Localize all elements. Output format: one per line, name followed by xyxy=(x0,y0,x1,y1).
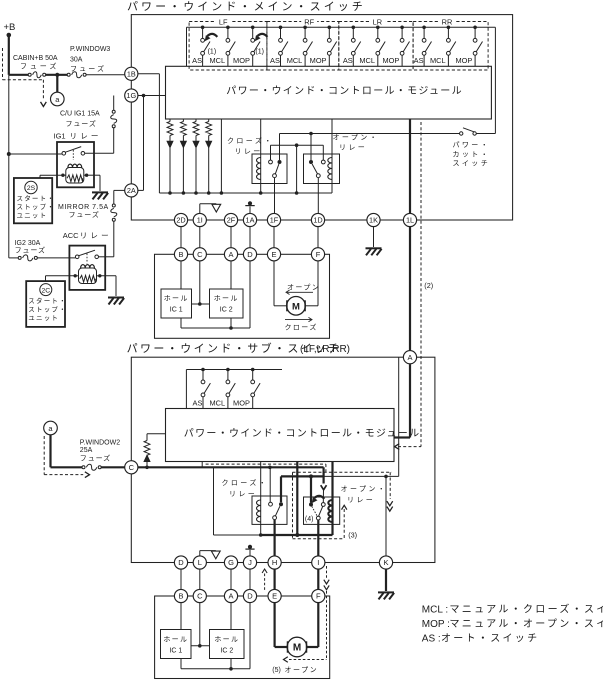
wire relay NO bus xyxy=(271,145,324,160)
relay open (sub) contacts xyxy=(309,503,325,520)
wire IG1 contact to C/U fuse xyxy=(85,152,114,154)
labels AS MCL MOP LF xyxy=(192,56,250,65)
wire 1L to A (bold) xyxy=(409,227,411,351)
svg-text:ストップ・: ストップ・ xyxy=(17,203,56,211)
svg-text:フューズ: フューズ xyxy=(66,119,97,128)
labels AS MCL MOP LR xyxy=(343,56,400,65)
junction close relay NO tap xyxy=(268,466,272,470)
switch RF AS xyxy=(279,26,288,67)
wire C feed to open relay contact xyxy=(321,476,327,502)
label IG1 relay xyxy=(54,131,102,140)
svg-text:RF: RF xyxy=(304,17,314,26)
svg-text:L: L xyxy=(198,558,202,567)
svg-text:AS: AS xyxy=(270,56,280,65)
label C/U IG1 15A fuse xyxy=(60,111,100,129)
svg-text:LR: LR xyxy=(373,17,382,26)
wire +B vertical (bold) xyxy=(8,35,10,75)
wire open common drop (bold) xyxy=(310,476,312,502)
svg-text:C/U IG1 15A: C/U IG1 15A xyxy=(60,111,100,118)
wire +B to CABIN fuse (bold) xyxy=(9,74,28,76)
svg-text:30A: 30A xyxy=(70,56,83,63)
pin L (sub bottom) xyxy=(193,556,206,569)
svg-text:1G: 1G xyxy=(126,91,136,100)
switch group RR dashed box xyxy=(413,22,488,71)
svg-text:1L: 1L xyxy=(406,216,414,225)
svg-text:(1): (1) xyxy=(208,49,217,56)
switch LF MOP xyxy=(251,26,260,67)
wire C to hall ICs (unit2) xyxy=(191,603,210,648)
svg-text:クローズ: クローズ xyxy=(285,322,318,331)
chip hall IC2 (unit2) xyxy=(210,630,245,659)
pin K (sub bottom) xyxy=(379,556,392,569)
svg-text:C: C xyxy=(197,592,203,601)
wire ACC contact to MIRROR fuse line xyxy=(99,256,114,258)
label sub control module xyxy=(184,427,421,439)
switch RR MOP xyxy=(473,26,482,67)
wire open relay output to 1D xyxy=(317,178,319,214)
switch LR AS xyxy=(351,26,360,67)
pin B (motor unit 1) xyxy=(174,248,187,261)
svg-text:リレー: リレー xyxy=(70,131,102,140)
wire sub coil bus xyxy=(214,533,333,537)
svg-text:スタート・: スタート・ xyxy=(28,296,67,305)
dashed flow path I to motor xyxy=(284,566,330,662)
ground 1K xyxy=(366,248,382,255)
relay open (main) coil xyxy=(328,119,332,193)
svg-text:AS: AS xyxy=(192,56,202,65)
label (3) xyxy=(348,531,357,540)
svg-text:MOP :: MOP : xyxy=(422,619,450,630)
label (5) open flow xyxy=(272,666,318,674)
svg-text:H: H xyxy=(272,558,277,567)
relay ACC coil with resistor xyxy=(74,265,102,284)
svg-text:RR: RR xyxy=(442,17,453,26)
wire CABIN fuse to junction (bold) xyxy=(46,74,67,76)
svg-text:MOP: MOP xyxy=(455,56,472,65)
wire D to B (unit2) xyxy=(180,569,182,589)
svg-text:AS: AS xyxy=(343,56,353,65)
pin D (motor unit 1) xyxy=(243,248,256,261)
wire +B to IG1 relay contact xyxy=(9,153,62,155)
pin 1D xyxy=(311,213,324,226)
label start-stop unit lower xyxy=(28,296,67,322)
labels AS MCL MOP sub xyxy=(193,399,250,408)
fuse CABIN+B 50A xyxy=(13,55,59,78)
svg-text:B: B xyxy=(178,592,183,601)
svg-text:(5): (5) xyxy=(272,667,281,674)
labels AS MCL MOP RF xyxy=(270,56,327,65)
wire L to C (unit2) xyxy=(199,569,201,589)
ground IG1 relay xyxy=(92,192,108,199)
switch LR MCL xyxy=(376,26,385,67)
junction open relay common xyxy=(309,132,313,136)
switch sub MOP xyxy=(251,368,260,409)
svg-text:パワー・: パワー・ xyxy=(453,141,491,149)
pin D (motor unit 2) xyxy=(243,589,256,602)
wire 1G into module xyxy=(138,95,166,97)
switch group LR dashed box xyxy=(339,22,413,71)
switch group RF dashed box xyxy=(267,22,339,71)
wire B to hall IC1 (unit2) xyxy=(180,603,182,630)
pin 2D xyxy=(174,213,187,226)
wire 1K to ground xyxy=(373,227,375,247)
wire 1I to C xyxy=(199,227,201,248)
svg-text:AS: AS xyxy=(193,399,203,408)
label MIRROR 7.5A fuse xyxy=(58,204,109,219)
dashed path from a xyxy=(44,436,89,478)
junction NO bus to coil bus xyxy=(295,143,299,194)
junction IG1 feed xyxy=(7,152,11,156)
wire junction down to (a) (bold) xyxy=(56,75,58,92)
relay IG1 box xyxy=(57,142,94,187)
label close relay (main) xyxy=(227,136,274,156)
fuse IG2 30A symbol xyxy=(9,255,76,261)
motor M (unit1) xyxy=(287,297,306,316)
wire close relay (sub) output to H (bold) xyxy=(274,520,276,556)
svg-text:2A: 2A xyxy=(127,186,136,195)
svg-text:ホール: ホール xyxy=(214,295,239,303)
svg-text:(1): (1) xyxy=(255,49,264,56)
junction C resistor tap xyxy=(145,466,149,470)
svg-text:(3): (3) xyxy=(348,531,357,540)
wire module return (bold) xyxy=(296,462,298,536)
label open relay (main) xyxy=(333,134,380,152)
wire coil bus to C line xyxy=(213,467,215,535)
svg-text:E: E xyxy=(272,592,277,601)
unit motor 1 box xyxy=(155,254,330,338)
wire 2A to MIRROR fuse xyxy=(114,190,125,204)
ground K xyxy=(378,592,394,599)
svg-text:IC 2: IC 2 xyxy=(220,307,233,314)
svg-text:カット・: カット・ xyxy=(453,150,491,158)
switch RF MCL xyxy=(303,26,312,67)
svg-text:D: D xyxy=(247,250,253,259)
switch power cut xyxy=(460,27,496,135)
wire +B down to IG2 fuse xyxy=(8,75,10,258)
wire A to hall IC2 xyxy=(230,261,232,289)
relay open (sub) coil (bold) xyxy=(328,462,332,536)
symbol antenna node at 1A xyxy=(245,201,254,213)
svg-text:MCL: MCL xyxy=(430,56,446,65)
wire IG1 coil to 2S unit xyxy=(40,175,63,178)
wire F to motor (unit1) xyxy=(306,261,319,306)
wire C to hall ICs xyxy=(192,261,210,306)
svg-text:F: F xyxy=(316,592,321,601)
dashed path under module xyxy=(206,464,326,472)
wire branch 5 plain xyxy=(220,119,224,195)
svg-text:MOP: MOP xyxy=(233,399,250,408)
wire C feed line (bold) xyxy=(138,467,324,476)
svg-text:MCL: MCL xyxy=(209,399,225,408)
pin C (sub) xyxy=(125,461,138,474)
svg-text:M: M xyxy=(292,301,300,312)
svg-text:F: F xyxy=(316,250,321,259)
label main control module xyxy=(226,85,463,97)
svg-text:1B: 1B xyxy=(127,69,136,78)
svg-text:リレー: リレー xyxy=(347,497,375,504)
motor M (unit2) xyxy=(287,637,307,657)
unit 2C start-stop box xyxy=(26,281,65,327)
switch RR MCL xyxy=(447,26,456,67)
fuse MIRROR 7.5A symbol xyxy=(111,204,117,257)
svg-text:MOP: MOP xyxy=(382,56,399,65)
label power window main switch title xyxy=(127,0,366,13)
fuse P.WINDOW2 25A xyxy=(80,440,120,471)
pin 1I xyxy=(193,213,206,226)
wire a to P.WINDOW2 fuse (bold) xyxy=(51,435,83,467)
svg-text:I: I xyxy=(317,558,319,567)
pin E (motor unit 1) xyxy=(267,248,280,261)
svg-text:A: A xyxy=(228,250,233,259)
svg-text:MCL: MCL xyxy=(209,56,225,65)
wire ACC coil to 2C unit xyxy=(46,276,76,281)
legend MOP xyxy=(422,618,603,630)
relay close (main) contacts xyxy=(269,160,282,178)
svg-text:オープン: オープン xyxy=(285,666,319,674)
resistor-diode branch x=208.7 xyxy=(206,119,212,195)
svg-text:(2): (2) xyxy=(424,281,433,290)
node +B battery terminal xyxy=(4,22,16,37)
wire close relay output to 1F xyxy=(274,178,276,214)
arrow (1) on LF AS switch xyxy=(205,34,218,56)
wire relay common bus (bold) xyxy=(281,475,324,477)
node a (upper off-page connector) xyxy=(51,92,65,106)
module sub control box xyxy=(166,409,395,462)
svg-text:2S: 2S xyxy=(27,185,36,192)
svg-text:マニュアル・クローズ・スイッチ: マニュアル・クローズ・スイッチ xyxy=(450,603,603,616)
pin A (sub) xyxy=(403,351,416,364)
svg-text:B: B xyxy=(178,250,183,259)
svg-text:1K: 1K xyxy=(369,216,378,225)
pin D (sub bottom) xyxy=(174,556,187,569)
pin C (motor unit 2) xyxy=(193,589,206,602)
svg-text:オート・スイッチ: オート・スイッチ xyxy=(441,632,539,644)
switch RF MOP xyxy=(327,26,336,67)
arrow (4) on open relay xyxy=(305,496,324,523)
wire P.WINDOW3 fuse to 1B xyxy=(86,74,125,76)
svg-text:フューズ: フューズ xyxy=(15,245,46,254)
wire A to module (bold) xyxy=(394,364,410,437)
svg-text:CABIN+B 50A: CABIN+B 50A xyxy=(13,55,58,62)
wire B to hall IC1 xyxy=(180,261,182,289)
svg-text:フューズ: フューズ xyxy=(20,62,59,71)
svg-text:ホール: ホール xyxy=(214,636,239,644)
svg-text:25A: 25A xyxy=(80,447,93,454)
svg-text:1D: 1D xyxy=(313,216,322,225)
dashed path (2) xyxy=(395,122,421,450)
svg-text:A: A xyxy=(407,353,412,362)
wire D to IC bus xyxy=(181,261,250,330)
pin 1A xyxy=(243,213,256,226)
switch group LF dashed box xyxy=(189,22,267,71)
relay ACC contacts and blade xyxy=(75,250,98,263)
svg-text:ストップ・: ストップ・ xyxy=(28,306,67,314)
wire main switch bus xyxy=(187,27,496,66)
wire main coil bus xyxy=(170,192,332,194)
svg-text:A: A xyxy=(228,592,233,601)
svg-text:(LF,LR,RR): (LF,LR,RR) xyxy=(300,344,350,355)
resistor-diode branch x=196 xyxy=(193,119,199,195)
svg-text:1A: 1A xyxy=(246,216,255,225)
label open direction (unit1) xyxy=(286,283,320,294)
relay open (sub) box xyxy=(304,497,340,524)
svg-text:IG1: IG1 xyxy=(54,131,66,140)
resistor C feed xyxy=(144,434,165,468)
svg-text:パワー・ウインド・コントロール・モジュール: パワー・ウインド・コントロール・モジュール xyxy=(184,427,421,439)
label power window sub switch title xyxy=(127,341,350,355)
relay open (main) box xyxy=(304,154,340,184)
relay IG1 coil with resistor xyxy=(61,164,88,183)
pin J (sub bottom) xyxy=(243,556,256,569)
wire D to IC bus (unit2) xyxy=(181,603,250,671)
svg-text:D: D xyxy=(178,558,184,567)
wire E to motor (unit1) xyxy=(274,261,287,306)
svg-text:マニュアル・オープン・スイッチ: マニュアル・オープン・スイッチ xyxy=(450,618,603,630)
svg-text:ホール: ホール xyxy=(164,295,189,303)
svg-text:K: K xyxy=(383,558,388,567)
switch LF AS xyxy=(201,26,210,67)
svg-text:リレー: リレー xyxy=(339,145,367,152)
svg-text:2C: 2C xyxy=(41,287,50,294)
wire H to E (bold) xyxy=(274,569,276,589)
svg-text:2F: 2F xyxy=(227,216,236,225)
svg-text:G: G xyxy=(228,558,234,567)
wire power-cut line to relays xyxy=(280,134,460,161)
pin 2F xyxy=(224,213,237,226)
svg-text:パワー・ウインド・コントロール・モジュール: パワー・ウインド・コントロール・モジュール xyxy=(226,85,463,97)
symbol antenna node at J xyxy=(245,545,254,556)
relay close (sub) coil xyxy=(257,462,261,536)
relay IG1 contacts and blade xyxy=(62,147,85,160)
switch LF MCL xyxy=(226,26,235,67)
unit motor 2 box xyxy=(155,596,330,679)
label close direction (unit1) xyxy=(285,317,318,331)
label (2) xyxy=(424,281,433,290)
wire K branch down xyxy=(385,476,387,556)
pin 2A xyxy=(125,184,138,197)
switch LR MOP xyxy=(400,26,409,67)
svg-text:M: M xyxy=(293,643,301,654)
dashed path to K with arrows xyxy=(387,472,393,511)
relay close (main) coil xyxy=(257,119,263,195)
svg-text:スタート・: スタート・ xyxy=(17,194,56,203)
svg-text:スイッチ: スイッチ xyxy=(453,160,491,168)
pin E (motor unit 2) xyxy=(268,589,281,602)
svg-text:AS: AS xyxy=(414,56,424,65)
junction K branch xyxy=(384,475,388,479)
pin I (sub bottom) xyxy=(312,556,325,569)
pin 1G xyxy=(125,89,138,102)
svg-text:IG2 30A: IG2 30A xyxy=(15,240,41,247)
wire module feed stub xyxy=(201,462,203,468)
junction a-branch xyxy=(55,73,59,77)
pin G (sub bottom) xyxy=(224,556,237,569)
unit main switch box xyxy=(131,15,512,220)
legend AS xyxy=(422,632,540,644)
resistor-diode branch x=170 xyxy=(167,119,173,195)
node 2S xyxy=(25,181,37,193)
label group RR xyxy=(439,17,455,26)
fuse P.WINDOW3 30A xyxy=(67,46,110,78)
wire close common drop (bold) xyxy=(280,476,282,502)
node a (lower off-page connector) xyxy=(44,421,58,435)
pin F (motor unit 2) xyxy=(312,589,325,602)
svg-text:IC 2: IC 2 xyxy=(220,648,233,655)
svg-text:リレー: リレー xyxy=(229,491,257,498)
wire 1B right to resistor bus xyxy=(138,74,170,193)
wire ACC coil to ground xyxy=(100,276,116,296)
symbol chassis flag at L xyxy=(200,551,220,559)
wire P.WINDOW2 fuse to C (bold) xyxy=(101,466,125,468)
svg-text:P.WINDOW3: P.WINDOW3 xyxy=(70,46,110,53)
svg-text:MIRROR 7.5A: MIRROR 7.5A xyxy=(58,204,109,211)
label start-stop unit upper xyxy=(17,194,56,220)
wire G to A (unit2) xyxy=(230,569,232,589)
wire IG1 coil to ground xyxy=(87,175,100,191)
svg-text:フューズ: フューズ xyxy=(70,64,106,73)
svg-text:オープン・: オープン・ xyxy=(341,485,388,493)
svg-text:クローズ・: クローズ・ xyxy=(227,136,274,145)
svg-text:(4): (4) xyxy=(305,516,314,523)
unit 2S start-stop box xyxy=(14,178,52,223)
symbol chassis flag at 1I xyxy=(200,204,221,214)
svg-text:リレー: リレー xyxy=(80,231,112,240)
pin 1F xyxy=(267,213,280,226)
svg-text:1F: 1F xyxy=(270,216,279,225)
svg-text:2D: 2D xyxy=(176,216,185,225)
legend MCL xyxy=(422,603,603,616)
wire 1A to D xyxy=(249,227,251,248)
label IG2 30A fuse xyxy=(15,240,46,255)
node 2C xyxy=(40,284,52,296)
pin A (motor unit 1) xyxy=(224,248,237,261)
wire tap to close relay contact xyxy=(269,467,271,502)
label group LF xyxy=(215,17,231,26)
pin B (motor unit 2) xyxy=(174,589,187,602)
svg-text:パワー・ウインド・メイン・スイッチ: パワー・ウインド・メイン・スイッチ xyxy=(127,0,366,13)
pin 1L xyxy=(403,213,416,226)
relay close (main) box xyxy=(252,154,287,184)
pin C (motor unit 1) xyxy=(193,248,206,261)
svg-text:オープン: オープン xyxy=(287,283,320,291)
wire 1G branch down to 2A xyxy=(138,96,144,191)
label group LR xyxy=(369,17,385,26)
junction open common xyxy=(309,474,313,478)
pin 1K xyxy=(367,213,380,226)
svg-text:オープン・: オープン・ xyxy=(333,134,380,142)
svg-text:AS :: AS : xyxy=(422,633,441,644)
svg-text:MCL :: MCL : xyxy=(422,605,448,616)
labels AS MCL MOP RR xyxy=(414,56,473,65)
svg-text:E: E xyxy=(271,250,276,259)
chip hall IC2 (unit1) xyxy=(210,289,244,318)
relay ACC box xyxy=(69,246,105,290)
module main power window control box xyxy=(166,66,492,119)
pin H (sub bottom) xyxy=(268,556,281,569)
svg-text:MOP: MOP xyxy=(233,56,250,65)
resistor-diode branch x=183.4 xyxy=(181,119,187,195)
relay close (sub) contacts xyxy=(269,502,283,519)
svg-text:+B: +B xyxy=(4,22,16,33)
switch RR AS xyxy=(422,26,431,67)
label open relay (sub) xyxy=(341,485,388,504)
svg-text:ホール: ホール xyxy=(163,636,188,644)
switch sub MCL xyxy=(226,368,235,409)
fuse C/U IG1 15A symbol xyxy=(111,96,117,154)
svg-text:IC 1: IC 1 xyxy=(170,307,183,314)
unit sub switch box xyxy=(131,357,435,562)
wire module to 1L (bold) xyxy=(409,119,411,213)
